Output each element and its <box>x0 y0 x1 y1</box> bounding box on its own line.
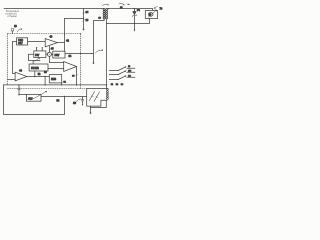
wire: box D right with arrow to primary return <box>65 53 93 55</box>
svg-text:40: 40 <box>50 36 53 39</box>
node: secondary top junction dot <box>108 8 109 9</box>
svg-text:10: 10 <box>14 25 17 28</box>
heater diagonals inside box I <box>89 91 99 101</box>
svg-text:S3: S3 <box>121 84 123 86</box>
svg-text:16: 16 <box>98 17 101 19</box>
box B: divider <box>34 51 46 58</box>
transformer T1 primary winding <box>103 8 105 18</box>
leader arrow + label 70 top right <box>154 6 157 8</box>
title text block <box>5 10 19 18</box>
svg-text:54: 54 <box>69 55 72 58</box>
wire: secondary bottom / long vertical <box>106 19 108 89</box>
variable arrow through box H <box>31 91 47 100</box>
svg-text:S1: S1 <box>111 84 113 86</box>
ground rail <box>4 84 107 86</box>
relay box K1 <box>145 11 157 19</box>
box F: filter <box>29 64 48 71</box>
svg-text:62: 62 <box>63 81 66 83</box>
svg-text:of heater: of heater <box>7 15 17 18</box>
node: zener branch / return rail junction <box>134 23 135 24</box>
crystal symbol above boundary <box>12 31 14 33</box>
dashed IC boundary <box>8 34 87 89</box>
svg-text:42: 42 <box>66 39 69 42</box>
wire: primary bottom return <box>94 19 105 62</box>
svg-text:44: 44 <box>19 69 22 72</box>
node dot at end of primary return <box>93 62 95 64</box>
op-amp J (output amp) <box>64 62 77 72</box>
svg-text:24: 24 <box>86 11 89 14</box>
svg-text:ADJ: ADJ <box>28 97 32 100</box>
svg-text:LO: LO <box>128 75 131 77</box>
svg-text:REG: REG <box>51 79 56 81</box>
arrowhead at bottom of zener branch <box>134 30 136 32</box>
svg-text:26: 26 <box>86 19 89 22</box>
wire: amp G output to box K <box>27 76 49 78</box>
wire: box F to amp J <box>48 68 64 70</box>
svg-text:46: 46 <box>51 47 54 50</box>
svg-text:56: 56 <box>57 99 60 102</box>
wire: amp G lower input <box>8 79 16 81</box>
top rail (right section from transformer secondary) <box>107 8 153 10</box>
box D: driver <box>53 51 65 58</box>
wire: feedback from comparator up and over <box>65 18 84 20</box>
tick marks + labels on sense tap <box>83 12 85 14</box>
svg-text:58: 58 <box>73 102 76 105</box>
summing node circle <box>47 52 51 56</box>
wire from notch corner <box>91 100 107 107</box>
selector switches S1-S3 <box>109 67 135 80</box>
svg-text:70: 70 <box>160 7 163 10</box>
svg-text:OSC: OSC <box>18 40 23 42</box>
svg-text:DIV: DIV <box>35 55 39 57</box>
capacitor C2 <box>82 97 84 100</box>
leader arrow over transformer <box>102 4 108 5</box>
svg-text:HI: HI <box>128 66 130 68</box>
box B top stubs <box>37 48 43 51</box>
wire: amp J output feedback down to rail <box>76 67 78 85</box>
leader arrow near zener rail <box>127 3 130 6</box>
top rail (left section) <box>4 8 104 10</box>
wire: circle up into comparator <box>48 46 50 52</box>
variable arrow through relay <box>148 10 157 17</box>
wire: low-voltage return rail <box>107 19 150 24</box>
curved arrow near primary return <box>95 50 102 53</box>
circuit schematic, patent-style <box>0 0 164 120</box>
op-amp G (input amp) <box>15 72 27 81</box>
node: dashed boundary corner dot <box>80 33 81 34</box>
box A: oscillator <box>17 38 28 45</box>
wire: comparator output <box>57 42 64 44</box>
leader arc + label 58 <box>76 99 81 102</box>
svg-text:50: 50 <box>44 71 47 74</box>
wire: box A to comparator <box>28 41 46 43</box>
svg-text:S2: S2 <box>116 84 118 86</box>
zener diode D2 vertical wire <box>134 9 136 30</box>
box H: adjustable pot <box>26 94 41 101</box>
svg-text:52: 52 <box>38 73 41 76</box>
wire: rail into relay top <box>152 9 154 11</box>
wire: box H output to heater box <box>41 96 87 98</box>
svg-text:FILTER: FILTER <box>31 68 39 70</box>
comparator U2 <box>45 39 57 47</box>
wire: sense tap vertical x=83.5 <box>83 9 85 29</box>
box B lower loop with arrow <box>29 54 41 60</box>
zener diode D2 symbol <box>133 11 137 15</box>
capacitor C1 below rail <box>18 85 20 88</box>
box K <box>49 75 61 83</box>
box I: heater/motor load <box>87 89 107 107</box>
relay coil circle <box>148 13 153 17</box>
svg-text:CKT: CKT <box>18 43 23 45</box>
wire: box A left down to amp G <box>13 42 17 74</box>
box I bottom stub <box>90 106 92 112</box>
curved leader arrow near crystal <box>17 29 22 32</box>
node: feedback wire crossing dashed boundary <box>64 33 65 34</box>
svg-text:DRV: DRV <box>55 55 60 57</box>
svg-text:60: 60 <box>72 76 75 78</box>
left return loop <box>4 85 65 115</box>
transformer T1 secondary winding <box>106 8 108 18</box>
leader arrow + label 30 over secondary wire <box>119 3 124 5</box>
svg-text:MD: MD <box>128 70 132 72</box>
wire: circle down to amp J input <box>49 56 63 62</box>
coil on right edge of box I <box>107 88 109 99</box>
